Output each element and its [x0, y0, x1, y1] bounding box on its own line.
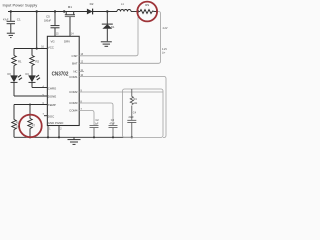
svg-text:DONE: DONE	[48, 95, 56, 99]
svg-text:RT: RT	[32, 125, 36, 128]
svg-text:Input Power Supply: Input Power Supply	[3, 2, 38, 7]
svg-text:DRV: DRV	[64, 39, 70, 43]
svg-text:47uF: 47uF	[110, 123, 116, 125]
svg-text:COM1: COM1	[69, 75, 78, 79]
svg-text:D1: D1	[111, 25, 115, 29]
svg-text:D2: D2	[90, 2, 94, 6]
svg-text:VCC: VCC	[48, 45, 54, 49]
svg-text:1uF: 1uF	[95, 123, 100, 125]
svg-text:DOC: DOC	[48, 114, 54, 118]
svg-text:GND: GND	[48, 121, 54, 125]
svg-text:PGND: PGND	[55, 121, 63, 125]
svg-text:CHRG: CHRG	[48, 86, 57, 90]
svg-text:4.2V: 4.2V	[163, 27, 168, 30]
svg-text:180uF: 180uF	[44, 20, 52, 23]
svg-text:47uF: 47uF	[3, 18, 9, 21]
svg-text:CN3702: CN3702	[52, 71, 69, 77]
svg-text:BAT: BAT	[72, 61, 78, 65]
svg-text:CSP: CSP	[72, 54, 78, 58]
svg-text:TEMP: TEMP	[48, 103, 56, 107]
svg-text:C1: C1	[17, 17, 21, 21]
svg-text:C5: C5	[46, 15, 50, 19]
svg-text:COM2: COM2	[69, 90, 78, 94]
svg-text:NC: NC	[73, 69, 77, 73]
svg-text:RS: RS	[145, 3, 149, 7]
svg-text:22uF: 22uF	[129, 117, 135, 119]
svg-text:COM4: COM4	[69, 109, 78, 113]
svg-text:M1: M1	[68, 5, 72, 9]
svg-text:R2: R2	[36, 59, 40, 63]
svg-text:COM3: COM3	[69, 101, 78, 105]
svg-text:R1: R1	[18, 59, 22, 63]
